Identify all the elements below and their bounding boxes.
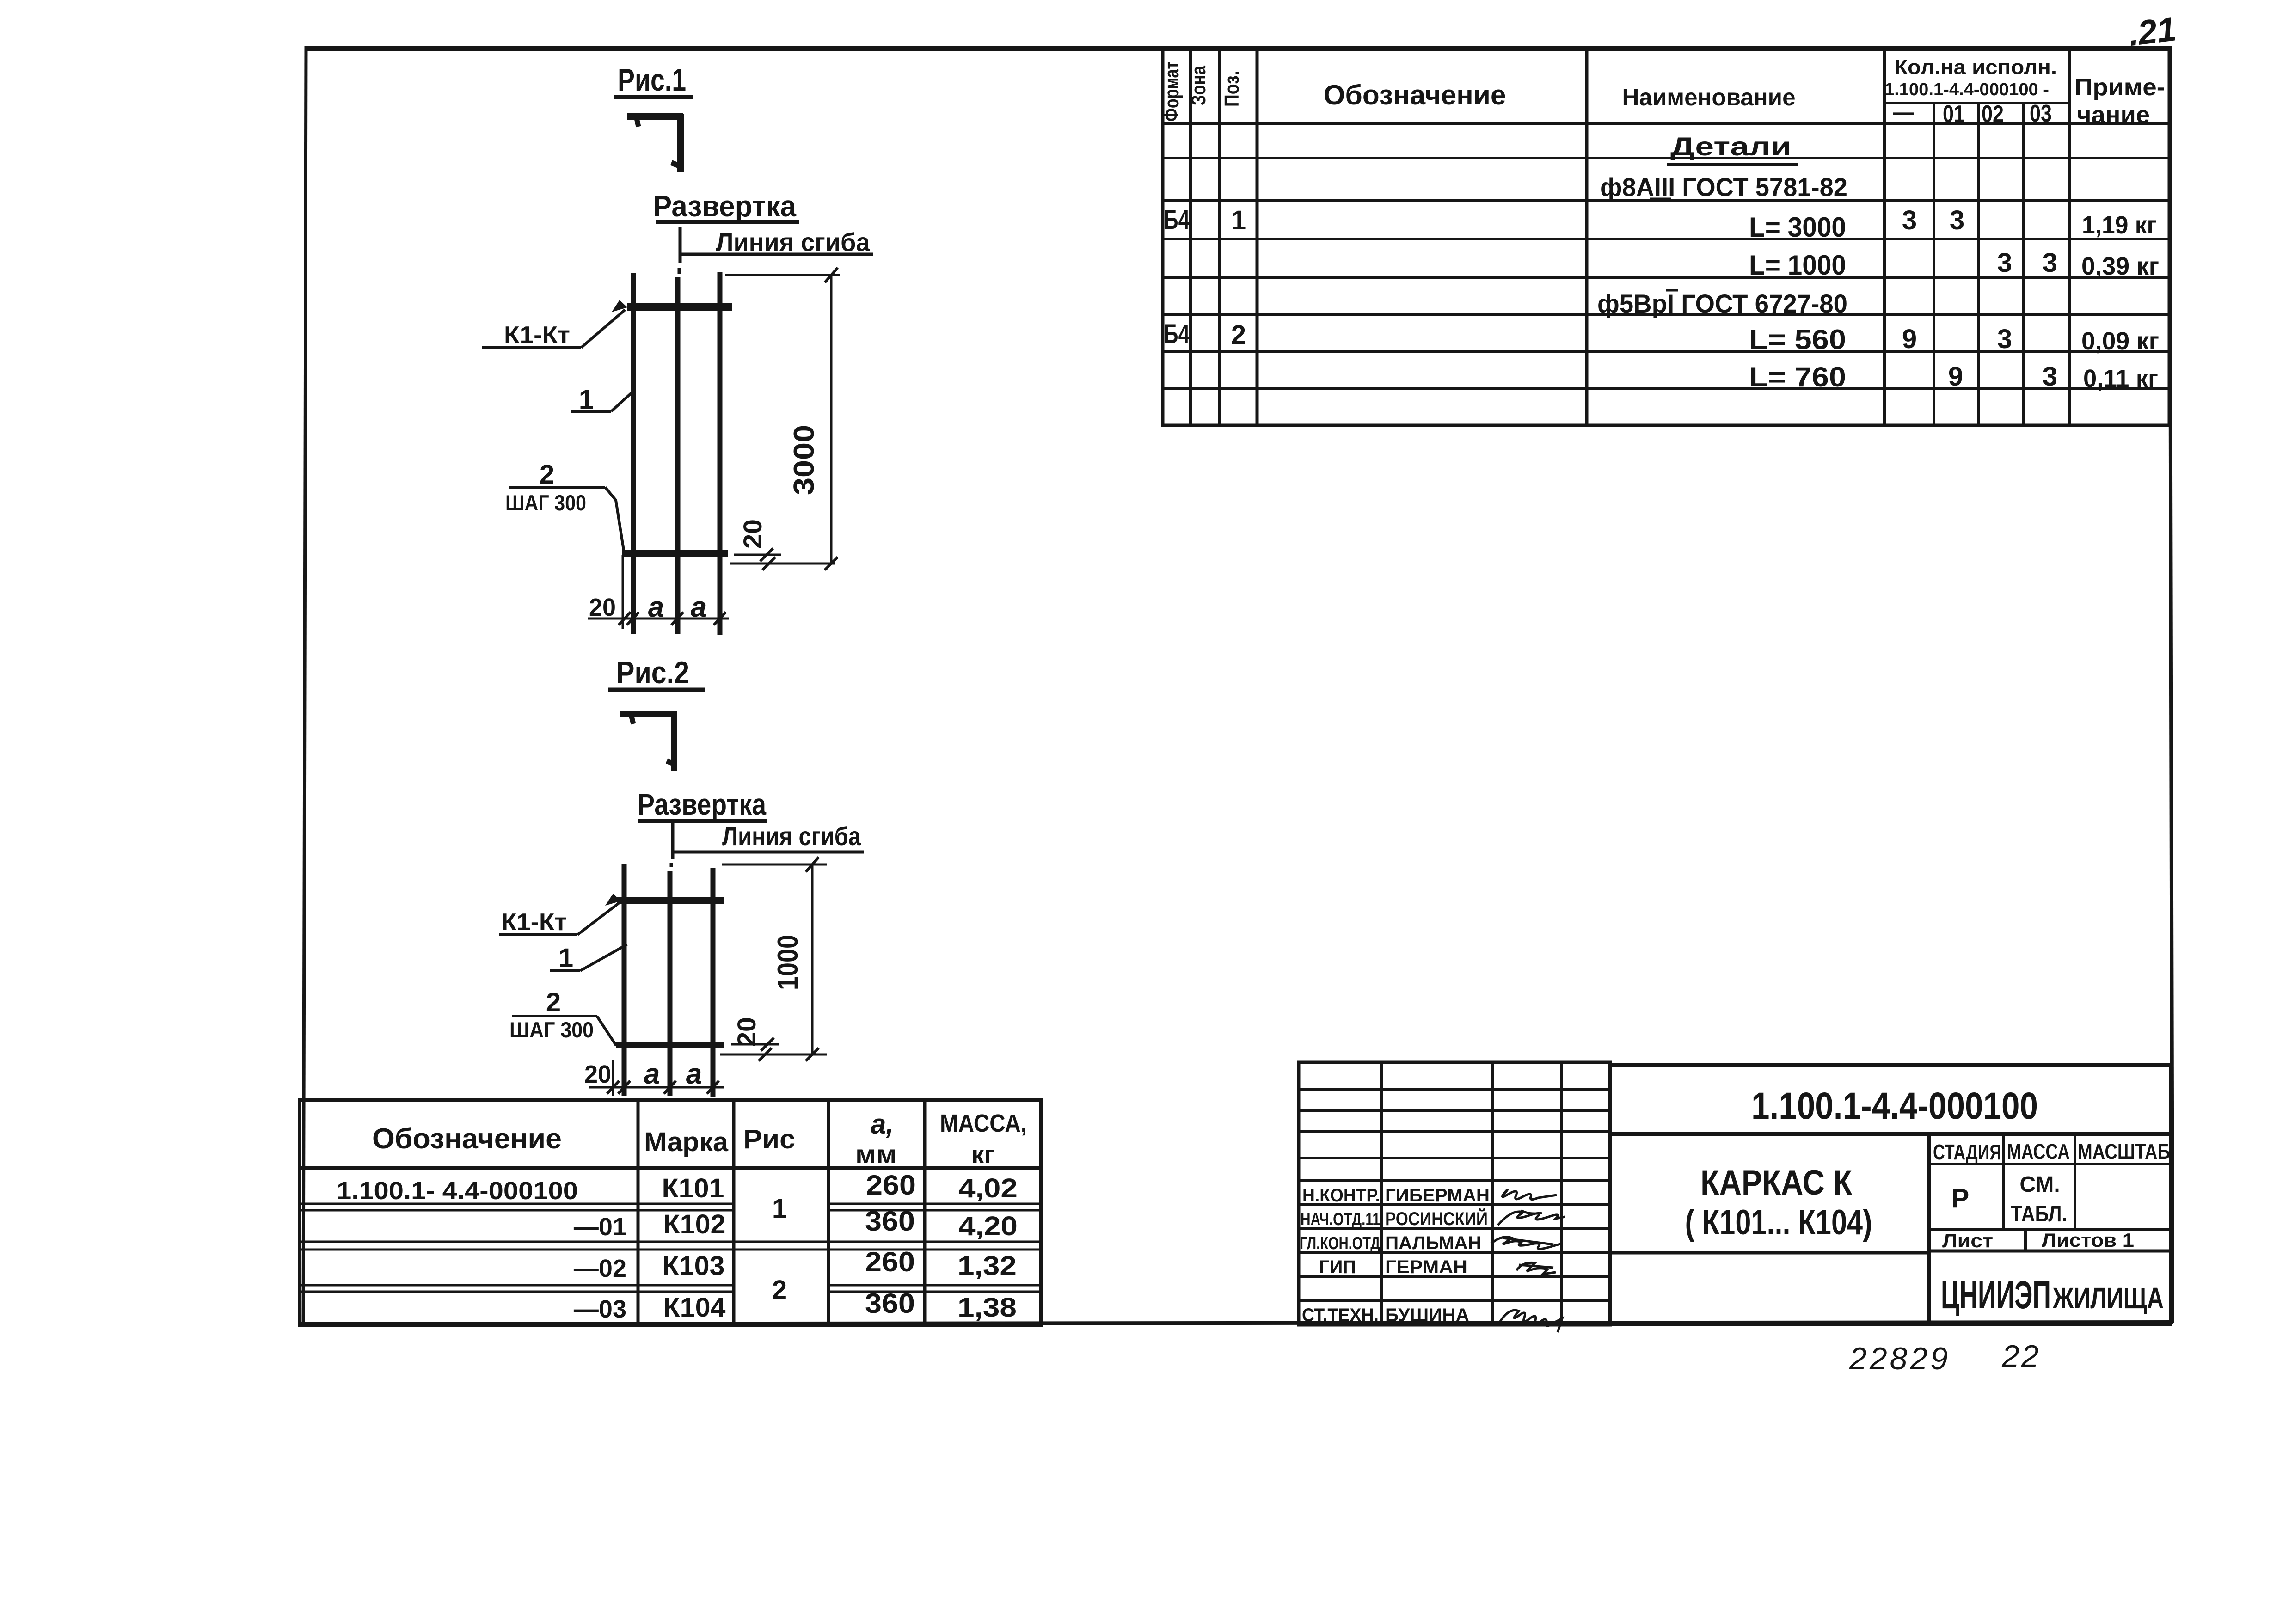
svg-text:20: 20	[589, 594, 616, 621]
svg-text:ШАГ 300: ШАГ 300	[509, 1017, 594, 1042]
titleblock Лист/Листов divider	[2024, 1230, 2027, 1251]
svg-text:9: 9	[1902, 324, 1917, 354]
fig2 middle bar	[668, 871, 673, 1096]
page border top	[305, 46, 2172, 51]
spec table subheader line	[1884, 102, 2069, 104]
marks table col Марка/Рис	[732, 1100, 736, 1325]
svg-text:Зона: Зона	[1187, 66, 1210, 105]
svg-text:Р: Р	[1951, 1183, 1970, 1213]
page border left	[303, 46, 306, 1325]
fig2 fold line tick	[671, 823, 675, 859]
marks table col Рис/а	[827, 1100, 830, 1325]
svg-text:К103: К103	[663, 1251, 725, 1281]
svg-text:К1-Кт: К1-Кт	[504, 322, 570, 349]
marks table row sep 3a	[300, 1284, 734, 1287]
svg-text:22829: 22829	[1849, 1341, 1951, 1376]
svg-text:9: 9	[1948, 362, 1963, 392]
titleblock right section frame	[1610, 1065, 2171, 1324]
titleblock Каркас cell bottom	[1610, 1251, 1929, 1255]
svg-text:Поз.: Поз.	[1221, 71, 1243, 107]
svg-text:20: 20	[738, 519, 767, 549]
marks table outer frame	[300, 1100, 1041, 1325]
svg-text:2: 2	[1231, 320, 1246, 350]
svg-text:a: a	[644, 1058, 660, 1090]
svg-text:1: 1	[579, 385, 594, 415]
page border right	[2170, 46, 2172, 1323]
fig1 К1-Кт arrowhead	[612, 300, 627, 312]
spec table column line 02	[1977, 103, 1980, 425]
fig1 К1-Кт leader	[581, 310, 625, 348]
titleblock sig row 1	[1299, 1088, 1610, 1091]
titleblock sig row 4	[1299, 1157, 1610, 1159]
svg-text:МАССА,: МАССА,	[940, 1109, 1027, 1137]
fig1 bottom tick 1	[619, 612, 631, 625]
svg-text:БУШИНА: БУШИНА	[1385, 1305, 1469, 1325]
fig1 К1-Кт underline	[482, 346, 581, 349]
svg-text:Приме-: Приме-	[2074, 74, 2165, 101]
svg-text:360: 360	[865, 1288, 915, 1319]
spec table outer frame	[1163, 49, 2169, 425]
fig1 label2 underline	[509, 486, 605, 489]
spec table column line Наименование/Кол	[1883, 49, 1886, 425]
fig1 dim 3000 line	[830, 275, 833, 564]
svg-text:4,02: 4,02	[958, 1173, 1018, 1203]
marks table row sep 1b	[300, 1209, 734, 1212]
titleblock docno row bottom	[1610, 1132, 2171, 1136]
spec table row line 7	[1163, 350, 2169, 353]
spec row ф8АIII underline	[1650, 198, 1671, 200]
marks table col а/Масса	[923, 1100, 927, 1325]
svg-text:02: 02	[1982, 101, 2004, 128]
svg-text:—02: —02	[574, 1255, 626, 1282]
fig1 title underline	[614, 95, 693, 99]
svg-text:3: 3	[1950, 205, 1964, 235]
fig2 Линия сгиба underline	[673, 851, 864, 854]
fig2 left bar	[622, 864, 627, 1096]
svg-text:РОСИНСКИЙ: РОСИНСКИЙ	[1385, 1208, 1488, 1229]
svg-text:НАЧ.ОТД.11: НАЧ.ОТД.11	[1301, 1210, 1380, 1229]
svg-text:Развертка: Развертка	[653, 190, 796, 223]
svg-text:а,: а,	[871, 1109, 894, 1140]
fig1 dim 3000 top tick	[825, 268, 838, 282]
signature squiggle Бушина	[1500, 1310, 1562, 1332]
svg-text:Листов 1: Листов 1	[2042, 1229, 2134, 1251]
signature squiggle Пальман	[1491, 1237, 1562, 1249]
fig1 dim 20 tick B1	[762, 557, 775, 570]
fig1 fold line tick	[679, 227, 682, 263]
spec table row line 6	[1163, 313, 2169, 316]
svg-text:a: a	[686, 1058, 702, 1090]
fig2 bent bar bottom tick	[667, 761, 674, 764]
fig2 dim 20 tick B1	[759, 1048, 772, 1061]
svg-text:4,20: 4,20	[958, 1211, 1018, 1241]
titleblock Стадия/Масса divider	[2002, 1135, 2005, 1230]
svg-text:1: 1	[558, 943, 573, 973]
svg-text:a: a	[648, 591, 664, 623]
titleblock sig col 2	[1491, 1062, 1494, 1325]
fig2 bottom tick 2	[618, 1081, 630, 1094]
svg-text:2: 2	[540, 460, 554, 490]
svg-text:Марка: Марка	[644, 1127, 729, 1157]
svg-text:1.100.1-4.4-000100 -: 1.100.1-4.4-000100 -	[1884, 80, 2049, 99]
fig1 middle bar	[675, 277, 681, 634]
spec table row line 5	[1163, 276, 2169, 279]
svg-text:ГЛ.КОН.ОТД: ГЛ.КОН.ОТД	[1300, 1234, 1380, 1253]
svg-text:3: 3	[1902, 205, 1917, 235]
titleblock sig row 2	[1299, 1109, 1610, 1112]
svg-text:—03: —03	[574, 1295, 626, 1323]
svg-text:К102: К102	[663, 1209, 726, 1239]
fig2 bent bar horizontal	[620, 711, 674, 717]
fig2 dim 1000 top extension	[722, 864, 827, 866]
svg-text:Б4: Б4	[1164, 319, 1190, 349]
titleblock sig row 7	[1299, 1227, 1610, 1230]
svg-text:Детали: Детали	[1670, 132, 1792, 161]
spec table row line 8	[1163, 387, 2169, 390]
fig1 bottom dim line	[588, 618, 729, 620]
svg-text:1,19 кг: 1,19 кг	[2082, 211, 2157, 239]
svg-text:3: 3	[2043, 248, 2057, 278]
svg-text:2: 2	[546, 987, 561, 1017]
fig2 bottom tick 3	[664, 1081, 676, 1094]
svg-text:260: 260	[866, 1170, 916, 1201]
svg-text:К1-Кт: К1-Кт	[501, 909, 567, 936]
svg-text:22: 22	[2001, 1339, 2041, 1374]
fig1 bottom crossbar	[622, 550, 728, 557]
titleblock signature grid outer	[1299, 1062, 1610, 1325]
svg-text:мм: мм	[855, 1140, 897, 1169]
titleblock sig row 6	[1299, 1203, 1610, 1206]
svg-text:СМ.: СМ.	[2019, 1172, 2060, 1197]
spec table row line 3	[1163, 199, 2169, 202]
page border bottom	[301, 1322, 2173, 1324]
svg-text:.21: .21	[2126, 9, 2178, 53]
fig2 bottom dim line	[589, 1086, 724, 1089]
signature squiggle Росинский	[1498, 1210, 1565, 1225]
titleblock Стадия header bottom	[1929, 1163, 2171, 1165]
spec table column line Обозначение/Наименование	[1585, 49, 1589, 425]
spec table column line Зона/Поз	[1218, 49, 1221, 425]
titleblock sig col 3	[1560, 1062, 1563, 1325]
fig2 label1 leader	[580, 944, 627, 971]
svg-text:Н.КОНТР.: Н.КОНТР.	[1302, 1185, 1380, 1206]
svg-text:К104: К104	[663, 1293, 726, 1323]
fig1 left bar	[631, 273, 636, 634]
svg-text:Рис: Рис	[743, 1124, 795, 1154]
svg-text:260: 260	[865, 1246, 915, 1277]
spec table column line Примечание	[2068, 49, 2071, 425]
svg-text:Линия сгиба: Линия сгиба	[722, 821, 861, 851]
svg-text:ГЕРМАН: ГЕРМАН	[1385, 1257, 1467, 1277]
svg-text:20: 20	[732, 1017, 761, 1047]
fig2 К1-Кт arrowhead	[605, 894, 621, 906]
fig1 Линия сгиба underline	[681, 253, 873, 256]
svg-text:К101: К101	[662, 1173, 724, 1203]
fig1 dim 3000 bottom tick	[825, 557, 838, 570]
fig2 bottom ext left	[612, 1060, 614, 1096]
svg-text:ГИП: ГИП	[1319, 1257, 1356, 1277]
svg-text:3: 3	[2043, 362, 2057, 392]
fig1 right bar	[718, 272, 723, 635]
fig1 label1 underline	[571, 410, 611, 413]
fig1 fold line dot	[678, 268, 681, 274]
svg-text:1,32: 1,32	[957, 1251, 1017, 1281]
svg-text:L= 760: L= 760	[1749, 362, 1846, 392]
spec table header bottom line	[1163, 122, 2169, 125]
svg-text:СТАДИЯ: СТАДИЯ	[1933, 1140, 2001, 1164]
fig1 bottom tick 4	[714, 612, 726, 625]
fig1 dim 20 line A	[734, 554, 781, 556]
svg-text:ф5ВрI ГОСТ 6727-80: ф5ВрI ГОСТ 6727-80	[1597, 289, 1847, 318]
svg-text:Обозначение: Обозначение	[372, 1123, 562, 1155]
svg-text:Рис.2: Рис.2	[616, 655, 689, 690]
titleblock Лист row bottom	[1929, 1250, 2171, 1253]
svg-text:( К101... К104): ( К101... К104)	[1685, 1203, 1872, 1242]
svg-text:1000: 1000	[772, 935, 804, 990]
titleblock sig row 9	[1299, 1275, 1610, 1278]
svg-text:2: 2	[772, 1275, 787, 1305]
fig1 bottom tick 3	[671, 612, 683, 625]
titleblock vertical Каркас/Стадия	[1927, 1134, 1931, 1325]
spec table row line 2	[1163, 157, 2169, 159]
fig1 label2 leader	[605, 487, 624, 550]
fig2 title underline	[608, 688, 705, 692]
svg-text:ПАЛЬМАН: ПАЛЬМАН	[1385, 1233, 1481, 1253]
marks table row sep 1a	[300, 1203, 734, 1205]
svg-text:0,11 кг: 0,11 кг	[2083, 365, 2158, 392]
svg-text:0,39 кг: 0,39 кг	[2081, 252, 2159, 280]
marks table row sep 2a	[300, 1241, 1041, 1243]
fig2 bottom tick 4	[707, 1081, 719, 1094]
svg-text:Наименование: Наименование	[1622, 84, 1796, 111]
fig2 label1 underline	[550, 969, 580, 972]
fig2 dim 1000 bottom tick	[806, 1048, 819, 1061]
fig2 dim 1000 line	[811, 864, 814, 1054]
fig1 bent bar bottom tick	[671, 163, 680, 166]
fig1 dim 20 line B	[730, 563, 835, 565]
svg-text:кг: кг	[971, 1141, 994, 1169]
spec table column line 03	[2022, 103, 2025, 425]
svg-text:КАРКАС К: КАРКАС К	[1700, 1163, 1853, 1202]
svg-text:ГИБЕРМАН: ГИБЕРМАН	[1385, 1185, 1490, 1206]
svg-text:3: 3	[1997, 248, 2012, 278]
titleblock sig row 5	[1299, 1179, 1610, 1182]
fig1 bent bar vertical	[677, 114, 684, 172]
fig2 Развертка underline	[638, 819, 767, 823]
svg-text:1.100.1-4.4-000100: 1.100.1-4.4-000100	[1751, 1085, 2038, 1127]
fig2 label2 underline	[512, 1015, 597, 1017]
fig2 К1-Кт leader	[577, 903, 619, 935]
svg-text:ШАГ 300: ШАГ 300	[505, 490, 586, 515]
svg-text:03: 03	[2030, 100, 2052, 127]
svg-text:20: 20	[584, 1060, 611, 1088]
svg-text:1.100.1- 4.4-000100: 1.100.1- 4.4-000100	[337, 1177, 578, 1205]
svg-text:3000: 3000	[788, 425, 820, 495]
svg-text:Б4: Б4	[1164, 205, 1190, 235]
fig2 right bar	[711, 868, 716, 1097]
marks table header bottom	[300, 1166, 1041, 1170]
fig2 bent bar vertical	[671, 711, 677, 771]
svg-text:Рис.1: Рис.1	[618, 62, 686, 98]
fig2 К1-Кт underline	[499, 933, 577, 936]
svg-text:—: —	[1893, 100, 1914, 124]
svg-text:Развертка: Развертка	[638, 788, 766, 821]
fig2 top crossbar	[617, 897, 724, 904]
titleblock Масса/Масштаб divider	[2074, 1135, 2076, 1230]
fig1 top crossbar	[627, 303, 732, 311]
svg-text:чание: чание	[2077, 102, 2150, 129]
fig2 dim 20 line B	[720, 1054, 827, 1056]
titleblock sig col 1	[1380, 1062, 1383, 1325]
spec row Детали underline	[1667, 163, 1798, 166]
svg-text:МАСШТАБ: МАСШТАБ	[2078, 1140, 2170, 1164]
fig1 label1 leader	[611, 392, 632, 411]
marks table row sep 2b	[300, 1249, 1041, 1251]
svg-text:0,09 кг: 0,09 кг	[2081, 327, 2159, 355]
svg-text:ЦНИИЭП: ЦНИИЭП	[1941, 1273, 2051, 1317]
titleblock Лист row top	[1929, 1228, 2171, 1231]
fig2 dim 1000 top tick	[806, 857, 819, 872]
fig2 fold line dot	[670, 863, 673, 867]
svg-text:Лист: Лист	[1942, 1230, 1993, 1251]
svg-text:1: 1	[772, 1194, 787, 1224]
fig2 bottom tick 1	[607, 1081, 619, 1094]
svg-text:МАССА: МАССА	[2007, 1140, 2070, 1164]
svg-text:L= 560: L= 560	[1749, 324, 1846, 355]
svg-text:01: 01	[1943, 101, 1965, 128]
fig1 Развертка underline	[656, 220, 799, 224]
svg-text:СТ.ТЕХН.: СТ.ТЕХН.	[1302, 1305, 1379, 1325]
marks table row sep 3b	[300, 1291, 734, 1293]
svg-text:360: 360	[865, 1206, 915, 1237]
svg-text:L= 3000: L= 3000	[1749, 212, 1846, 243]
fig1 bent bar horizontal	[627, 113, 683, 120]
marks table col Обозначение/Марка	[637, 1100, 640, 1325]
signature squiggle Гиберман	[1502, 1190, 1557, 1200]
svg-text:ф8АIII ГОСТ 5781-82: ф8АIII ГОСТ 5781-82	[1600, 172, 1847, 202]
svg-text:1,38: 1,38	[957, 1293, 1017, 1323]
fig2 label2 leader	[597, 1016, 616, 1046]
fig1 dim 20 tick A	[760, 548, 773, 561]
titleblock sig row 10	[1299, 1299, 1610, 1302]
svg-text:Формат: Формат	[1160, 61, 1183, 122]
signature squiggle Герман	[1516, 1262, 1556, 1274]
titleblock sig row 8	[1299, 1251, 1610, 1254]
fig2 bent bar left tick	[632, 717, 633, 724]
svg-text:L= 1000: L= 1000	[1749, 250, 1846, 281]
fig1 bottom tick 2	[627, 612, 639, 625]
fig2 dim 20 tick A	[761, 1038, 774, 1051]
spec table row line 4	[1163, 238, 2169, 240]
spec table column line 01	[1933, 103, 1935, 425]
svg-text:1: 1	[1231, 205, 1246, 235]
fig2 dim 20 line A	[731, 1043, 779, 1046]
fig2 bottom crossbar	[616, 1042, 724, 1048]
titleblock sig row 3	[1299, 1130, 1610, 1133]
fig1 bottom ext left	[622, 555, 624, 629]
svg-text:Кол.на исполн.: Кол.на исполн.	[1894, 56, 2057, 79]
svg-text:Линия сгиба: Линия сгиба	[716, 227, 871, 257]
svg-text:Обозначение: Обозначение	[1324, 80, 1506, 110]
svg-text:3: 3	[1997, 324, 2012, 354]
svg-text:—01: —01	[574, 1213, 626, 1241]
svg-text:ТАБЛ.: ТАБЛ.	[2011, 1202, 2067, 1226]
fig1 bent bar left tick	[637, 118, 638, 127]
spec row ф5ВрI overline	[1666, 289, 1678, 292]
spec table column line Формат/Зона	[1189, 49, 1192, 425]
svg-text:a: a	[691, 591, 706, 623]
fig1 dim 3000 top extension	[725, 274, 840, 276]
svg-text:ЖИЛИЩА: ЖИЛИЩА	[2052, 1281, 2164, 1315]
spec table column line Поз/Обозначение	[1256, 49, 1259, 425]
